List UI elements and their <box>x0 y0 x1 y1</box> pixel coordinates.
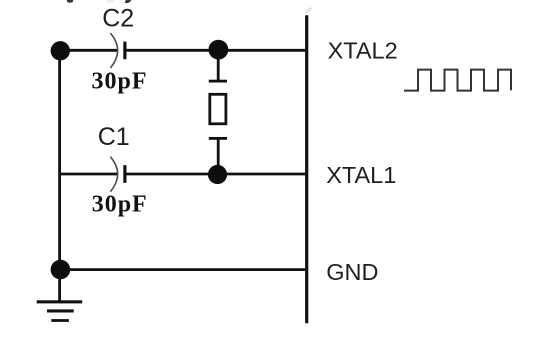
svg-text:XTAL2: XTAL2 <box>328 37 398 63</box>
svg-text:30pF: 30pF <box>92 68 148 94</box>
svg-text:GND: GND <box>326 259 378 285</box>
svg-text:30pF: 30pF <box>92 192 148 218</box>
svg-text:XTAL1: XTAL1 <box>326 162 396 188</box>
svg-text:C2: C2 <box>102 4 134 32</box>
svg-text:C1: C1 <box>98 123 130 151</box>
